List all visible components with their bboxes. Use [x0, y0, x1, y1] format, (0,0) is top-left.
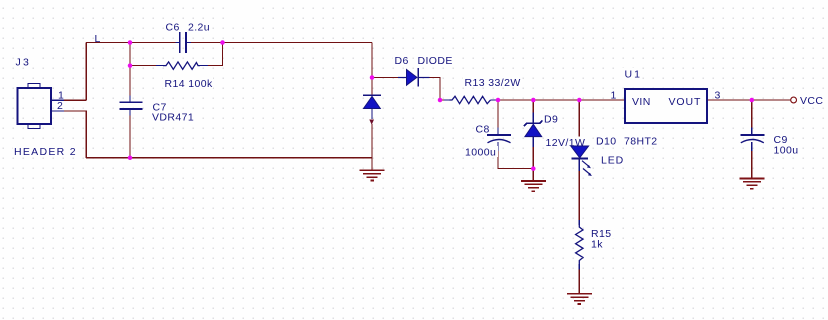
wire D7 node down to cathode bar [371, 78, 373, 95]
LED anode lead [578, 140, 580, 147]
wire U1 pin3 to VCC node [707, 99, 752, 101]
svg-text:D9: D9 [544, 114, 558, 126]
wire top rail C6 right to node [187, 42, 372, 44]
wire R13 right lead to node [496, 99, 498, 101]
wire pin1 J3 to vertical riser [51, 99, 64, 101]
wire D10 node down to LED anode [578, 100, 580, 140]
junction node at D9 top [531, 98, 536, 103]
wire VCC node to VCC terminal [752, 99, 791, 101]
diode D6 [407, 68, 419, 86]
junction node at D7 top [370, 75, 375, 80]
net label L [95, 33, 101, 45]
wire C6/R14 left vertical tie [129, 43, 131, 66]
svg-text:100u: 100u [774, 145, 799, 157]
svg-text:D10: D10 [596, 136, 616, 148]
resistor R13 [450, 96, 491, 103]
wire C9 bottom to ground [751, 151, 753, 179]
wire bottom rail [86, 157, 372, 159]
svg-text:C8: C8 [476, 124, 490, 136]
pin name VOUT [669, 96, 702, 108]
wire D9 anode down through tie to ground [532, 137, 534, 147]
svg-text:1: 1 [611, 90, 617, 102]
label 78HT2 value [623, 135, 659, 148]
wire C7 bottom to bottom rail [129, 116, 131, 158]
wire R15 bottom to ground [578, 264, 580, 270]
R13 left lead [444, 99, 450, 101]
wire D6 anode lead [398, 77, 407, 79]
capacitor C7 varistor [119, 102, 142, 109]
wire pin2 drop to bottom rail [64, 111, 86, 158]
pin number 1 of U1 [610, 90, 618, 102]
resistor R14 [163, 62, 200, 69]
svg-text:2.2u: 2.2u [188, 22, 210, 34]
junction node at C8/D9 ground tie [531, 166, 536, 171]
C8 top lead [497, 128, 499, 136]
capacitor C6 [175, 32, 191, 53]
label D6 refdes [393, 55, 410, 68]
ground at C9 [739, 179, 764, 189]
wire corner to R13 left [440, 99, 444, 101]
wire D9 anode to ground [532, 147, 534, 181]
svg-text:R14 100k: R14 100k [165, 78, 213, 90]
label 12V/1W value [544, 137, 586, 150]
svg-text:C6: C6 [166, 22, 180, 34]
capacitor C9 [740, 135, 764, 143]
label J3 refdes [14, 56, 34, 68]
wire R13 right to node C8 [491, 99, 497, 101]
zener diode D9 [524, 120, 543, 136]
C9 top lead [751, 128, 753, 136]
label 100u value [772, 145, 802, 157]
resistor R15 [576, 225, 583, 264]
wire pin1 to riser [64, 99, 86, 101]
wire main rail C8 node to D9 node [498, 99, 533, 101]
blank text background patch [226, 6, 262, 27]
junction node at C7 bottom rail [128, 156, 133, 161]
power terminal VCC [791, 97, 797, 103]
label LED value [600, 154, 627, 167]
svg-text:R13 33/2W: R13 33/2W [465, 77, 521, 89]
LED D10 [571, 146, 592, 176]
wire top rail left segment [86, 42, 179, 44]
label 1k value [590, 238, 607, 251]
wire C7 bottom to bottom rail [129, 109, 131, 116]
wire R14 right stub and vertical tie [200, 65, 208, 67]
junction node at D10 top [577, 98, 582, 103]
svg-text:78HT2: 78HT2 [624, 136, 658, 148]
junction node at top rail / C6 left [128, 40, 133, 45]
pin number 2 of J3 [56, 100, 64, 112]
C7 top lead [129, 96, 131, 103]
wire C8 node down to C8 top [497, 100, 499, 128]
svg-text:VIN: VIN [632, 96, 651, 108]
label U1 refdes [623, 68, 643, 81]
arrow mark on D7 anode wire [369, 120, 374, 125]
wire R15 bottom to ground [578, 270, 580, 294]
svg-text:D6: D6 [395, 55, 409, 67]
regulator U1 box [625, 89, 707, 123]
wire D9 node down to D9 cathode [532, 100, 534, 113]
label C8 refdes [474, 124, 492, 136]
wire C8 bottom to ground tie [498, 151, 533, 169]
wire D7 anode lead down to ground [371, 109, 373, 120]
label R13 33/2W value [463, 77, 521, 90]
pin number 3 of U1 [714, 90, 722, 102]
label VCC [799, 94, 825, 107]
wire pin2 J3 to vertical drop [51, 110, 64, 112]
label C9 refdes [772, 134, 790, 146]
wire D6 cathode to corner down to R13 [430, 78, 441, 101]
wire C9 bottom to ground [751, 142, 753, 151]
junction node at R14 left [128, 63, 133, 68]
diode D7 vertical clamp [363, 95, 381, 108]
label R15 refdes [590, 228, 615, 241]
svg-text:VCC: VCC [800, 95, 823, 107]
svg-text:1k: 1k [591, 239, 603, 251]
wire vertical riser up to top rail [85, 43, 87, 101]
junction node at R13 left corner [438, 98, 443, 103]
wire node to D6 anode [372, 77, 398, 79]
svg-text:2: 2 [57, 100, 63, 112]
wire main rail D10 node to U1 pin1 [579, 99, 625, 101]
wire vertical from top rail down to D7 node [371, 43, 373, 78]
pin number 1 of J3 [57, 90, 65, 102]
wire LED cathode down to R15 [578, 159, 580, 171]
R15 top lead [578, 220, 580, 225]
svg-text:LED: LED [601, 155, 624, 167]
label 1000u value [464, 146, 498, 159]
svg-text:1000u: 1000u [465, 147, 496, 159]
wire node down to C7 top [129, 66, 131, 96]
svg-text:VOUT: VOUT [669, 96, 702, 108]
svg-text:J3: J3 [16, 56, 32, 68]
ground at D7 / bottom rail [360, 170, 385, 180]
svg-text:L: L [95, 33, 101, 45]
D9 cathode lead [532, 113, 534, 123]
label R14 100k value [163, 78, 213, 91]
wire R14 right to vertical tie [208, 43, 223, 66]
wire R14 left stub [130, 65, 156, 67]
wire C9 node down to C9 top [751, 100, 753, 128]
svg-text:HEADER 2: HEADER 2 [14, 146, 77, 158]
label C7 refdes [151, 102, 169, 114]
label D9 refdes [543, 113, 562, 126]
ground at R15 [567, 294, 592, 304]
junction node at R13 right / C8 [496, 98, 501, 103]
wire D7 anode to ground [371, 124, 373, 170]
label D10 refdes [595, 135, 620, 148]
svg-text:VDR471: VDR471 [152, 112, 194, 124]
junction node at C9 top [750, 98, 755, 103]
wire D6 cathode to corner [418, 77, 429, 79]
capacitor C8 polarized [487, 135, 511, 143]
svg-text:U1: U1 [625, 69, 642, 81]
ground at D9/C8 [521, 181, 546, 191]
svg-text:DIODE: DIODE [418, 55, 453, 67]
connector J3 [18, 84, 52, 129]
svg-text:3: 3 [715, 90, 721, 102]
wire main rail D9 node to D10 node [533, 99, 579, 101]
junction node at top rail / C6 right [220, 40, 225, 45]
R14 left lead [156, 65, 163, 67]
label HEADER 2 value [13, 145, 77, 158]
label C6 2.2u value [164, 21, 212, 34]
wire C8 bottom to ground tie [497, 142, 499, 151]
pin name VIN [632, 96, 651, 108]
label DIODE value [416, 55, 454, 68]
label VDR471 value [151, 112, 196, 124]
wire LED cathode down to R15 [578, 171, 580, 220]
